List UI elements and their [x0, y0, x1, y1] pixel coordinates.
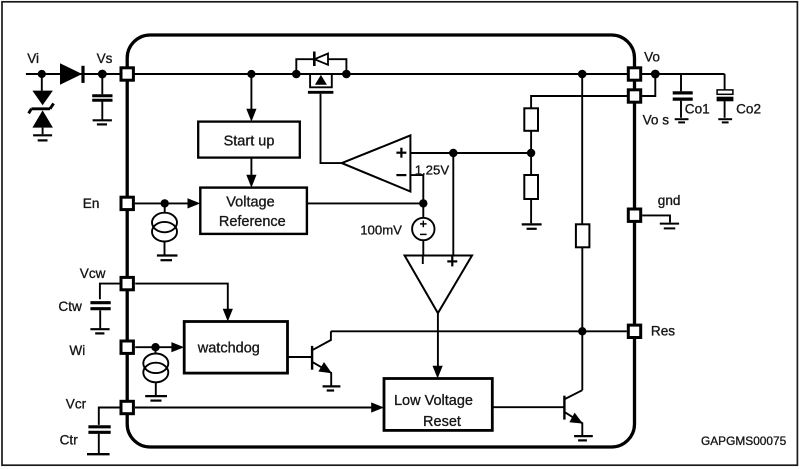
arrowheads [171, 109, 442, 413]
pin Res [628, 325, 640, 337]
wire VR output to 1.25V node [307, 202, 423, 204]
wire divider R1-R2 [530, 131, 532, 175]
wire Vo s sense line to divider [531, 96, 627, 108]
svg-text:Vo: Vo [644, 49, 660, 64]
diode D1 series at Vi [61, 64, 84, 84]
pin Wi [121, 341, 133, 353]
node 1.25V [419, 199, 427, 207]
resistor R3 [576, 224, 590, 247]
ground below Ctw [90, 329, 109, 333]
wire En current source stub [164, 203, 166, 213]
pin Vs [121, 68, 133, 80]
svg-text:Res: Res [651, 323, 675, 338]
wire Vi TVS stub [41, 74, 43, 91]
capacitor C at Vs [92, 96, 112, 100]
arrow into Voltage Reference top [246, 175, 256, 188]
wire Vo s external loop [642, 74, 655, 96]
wire gate of pass device to amp output [321, 94, 342, 163]
pass transistor body diode loop [296, 59, 346, 74]
pin Vo [628, 68, 640, 80]
wire node to 100mV source [422, 203, 424, 218]
wire Co1 to ground [680, 101, 682, 118]
ground below Co2 [718, 119, 732, 122]
block Low Voltage Reset [384, 379, 492, 431]
wire LVR to Q2 base [492, 406, 563, 408]
junction at Vi [38, 70, 46, 78]
wire Ctr bottom [98, 434, 100, 453]
ground below R2 [522, 224, 542, 228]
resistor R2 [524, 175, 538, 199]
svg-text:100mV: 100mV [360, 222, 402, 237]
pin En [121, 197, 133, 209]
wire Vs cap stub [101, 74, 103, 94]
arrow into Voltage Reference left [188, 198, 201, 208]
svg-text:Vo s: Vo s [643, 112, 670, 127]
wire startup branch [250, 74, 252, 110]
wire Wi current source stub [155, 347, 157, 353]
svg-text:Co1: Co1 [685, 101, 710, 116]
ground below Wi source [145, 396, 167, 401]
wire main top rail [26, 73, 627, 75]
wire Co1 to rail [680, 74, 682, 91]
svg-text:Reset: Reset [423, 414, 461, 430]
wire Wi to watchdog [135, 346, 172, 348]
wire R2 to ground [530, 199, 532, 223]
wire Vcw to Ctw [100, 284, 120, 300]
block Voltage Reference [200, 188, 307, 234]
wire Vs cap to ground [101, 102, 103, 120]
current source En [152, 213, 177, 233]
wire error amp + input to divider node [410, 152, 531, 154]
wire watchdog to Q1 base [288, 356, 312, 358]
op-amp error amplifier [342, 135, 411, 191]
svg-text:Voltage: Voltage [226, 194, 274, 210]
svg-text:Low Voltage: Low Voltage [394, 393, 473, 409]
wire + node down to comparator [452, 153, 454, 263]
arrow into watchdog top [223, 309, 233, 322]
svg-text:gnd: gnd [658, 193, 681, 208]
comparator (down pointing) [405, 256, 472, 314]
arrow into LVR left [371, 402, 384, 412]
capacitor Co2 (electrolytic) [717, 90, 733, 94]
junction Wi [151, 343, 159, 351]
wire Vcr to LVR [135, 407, 372, 409]
svg-text:watchdog: watchdog [197, 341, 260, 357]
svg-text:GAPGMS00075: GAPGMS00075 [701, 434, 787, 448]
wire Res line [331, 330, 627, 332]
junction start-up branch [247, 70, 255, 78]
ground below Q1 [323, 386, 341, 390]
Ctr bottom bar [87, 453, 110, 455]
arrow into LVR top [433, 366, 443, 379]
junction pass device right [342, 70, 351, 79]
ground below Q2 [574, 436, 593, 440]
svg-text:1.25V: 1.25V [415, 163, 450, 178]
wire Ctw to ground [99, 310, 101, 328]
junction Vo external [651, 70, 660, 79]
wire R3 to Res line and Q2 collector [581, 247, 583, 390]
wire Co2 to rail [724, 74, 726, 90]
wire En to VR [135, 202, 189, 204]
pin Vo s [628, 90, 640, 102]
wire error amp - input [410, 175, 423, 203]
junction Vo internal branch [578, 70, 587, 79]
wire Vo external right [642, 73, 725, 75]
svg-text:Start up: Start up [224, 133, 275, 149]
svg-text:Vcw: Vcw [80, 266, 106, 281]
pin Vcw [121, 277, 133, 289]
svg-text:En: En [83, 196, 100, 211]
ground below En source [157, 256, 178, 261]
zener TVS Z1 at Vi [32, 91, 53, 128]
voltage source 100mV [412, 218, 434, 240]
svg-text:Reference: Reference [219, 214, 286, 230]
arrow into watchdog left [171, 342, 184, 352]
svg-text:Ctr: Ctr [60, 433, 79, 448]
external ground at gnd pin [660, 224, 679, 229]
svg-text:Vcr: Vcr [66, 397, 87, 412]
junction En [161, 199, 169, 207]
ground below TVS [33, 135, 52, 140]
transistor Q2 (reset output NPN) [563, 396, 565, 420]
wire En current source to ground [164, 242, 166, 255]
junction pass device left [292, 70, 301, 79]
wire comparator output to LVR [437, 312, 439, 367]
ground below Vs cap [93, 120, 112, 124]
wire startup to VR [250, 158, 252, 176]
wire Vcw to watchdog [135, 284, 228, 310]
ground below Co1 [675, 119, 689, 122]
comparator left input stub [422, 256, 424, 265]
wire Vcr to Ctr [99, 408, 120, 425]
wire Vo internal branch down to R3 [581, 74, 583, 224]
pass transistor Q3 (PMOS) [310, 74, 332, 87]
wire 100mV to comparator [422, 240, 424, 263]
resistor R1 [524, 108, 538, 131]
current source Wi [143, 354, 168, 374]
junction at Vs [98, 70, 107, 79]
svg-text:Vs: Vs [97, 51, 113, 66]
arrow into Start up [246, 109, 256, 122]
IC boundary rounded rect [127, 35, 634, 447]
capacitor Ctr [88, 427, 110, 433]
body diode [315, 54, 329, 65]
pin squares [121, 68, 641, 414]
junction divider mid node [527, 149, 535, 157]
wire Wi current source to ground [155, 382, 157, 395]
capacitor Ctw [90, 303, 110, 309]
pin Vcr [121, 401, 133, 413]
block watchdog [184, 322, 287, 374]
transistor Q1 (watchdog output NPN) [311, 346, 313, 370]
block Start up [198, 122, 300, 158]
wire gnd pin to external ground [642, 215, 670, 222]
capacitor Co1 [673, 93, 693, 99]
junction amp + to comparator [449, 149, 457, 157]
wire Co2 to ground [724, 101, 726, 118]
svg-text:Co2: Co2 [736, 101, 761, 116]
junction Res line [578, 327, 586, 335]
svg-text:Vi: Vi [27, 51, 39, 66]
svg-text:Wi: Wi [69, 343, 85, 358]
pin gnd [628, 209, 640, 221]
svg-text:Ctw: Ctw [58, 299, 82, 314]
wire TVS to ground [42, 128, 44, 135]
